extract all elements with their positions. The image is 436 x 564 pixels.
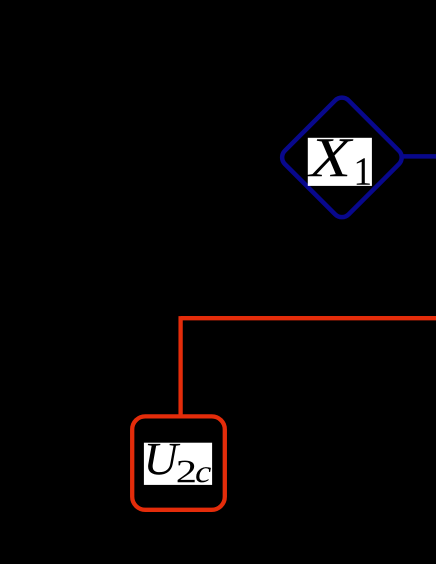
label U2c text: subscript 2 glyph (178, 461, 195, 483)
label U2c background box (144, 443, 212, 485)
label U2c text: U glyph (148, 444, 180, 475)
label X1 text: X glyph (307, 139, 353, 176)
label U2c text: subscript c glyph (196, 467, 211, 482)
node U2c (red rounded square) (132, 416, 225, 509)
node X1 (blue diamond, rotated rounded square) (278, 94, 405, 221)
label X1 background box (308, 138, 372, 186)
wire red horizontal: from right image edge to corner (181, 316, 436, 320)
label X1 text: subscript 1 glyph (357, 158, 370, 185)
wire red vertical: corner down to node U2c (178, 316, 182, 440)
wire blue: from node X1 right vertex to right image edge (398, 154, 436, 159)
